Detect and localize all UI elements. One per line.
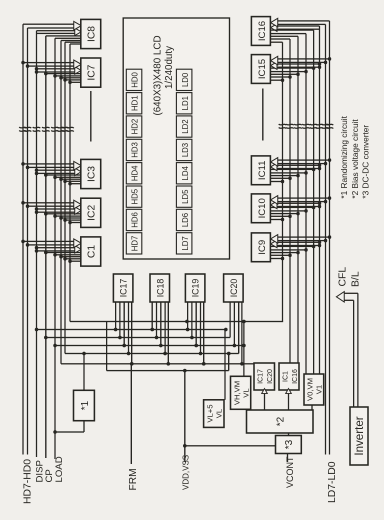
svg-text:IC8: IC8 bbox=[87, 26, 98, 42]
wire *3 supply branch bbox=[185, 445, 276, 447]
wire LOAD branch bbox=[53, 344, 246, 348]
box VH,VM/VL bbox=[231, 376, 251, 409]
wire rail link bbox=[227, 352, 231, 371]
randomizing circuit *1 bbox=[74, 390, 95, 420]
svg-text:HD1: HD1 bbox=[131, 95, 140, 111]
svg-text:VL: VL bbox=[242, 388, 251, 398]
wire *1 right lead bbox=[82, 352, 86, 391]
svg-text:CFL: CFL bbox=[337, 267, 348, 287]
net LOAD label bbox=[54, 456, 65, 482]
wire FRM line bbox=[130, 364, 132, 464]
net FRM label bbox=[128, 468, 139, 490]
svg-text:IC15: IC15 bbox=[257, 59, 268, 79]
box IC17-IC20 bbox=[254, 363, 275, 390]
wire bottom bus line 6 bbox=[277, 26, 320, 374]
column driver IC3 bbox=[81, 159, 101, 188]
svg-text:IC17: IC17 bbox=[119, 279, 129, 298]
wires/arrows into IC7 bbox=[21, 60, 81, 84]
net LD7-LD0 label bbox=[327, 461, 338, 503]
wire LOAD line bbox=[55, 38, 81, 459]
svg-text:LD7-LD0: LD7-LD0 bbox=[327, 461, 338, 503]
svg-text:HD5: HD5 bbox=[131, 188, 140, 204]
wire bottom bus line 4 bbox=[270, 34, 306, 374]
svg-text:IC17: IC17 bbox=[258, 369, 265, 384]
wires/arrows into IC11 bbox=[270, 158, 331, 184]
svg-text:IC20: IC20 bbox=[229, 279, 239, 298]
column driver IC2 bbox=[81, 198, 101, 227]
svg-text:*2 Bias voltage circuit: *2 Bias voltage circuit bbox=[350, 119, 360, 199]
svg-text:HD0: HD0 bbox=[131, 71, 140, 87]
wire bus line 8 (VDD jog) bbox=[70, 44, 283, 371]
svg-text:*3: *3 bbox=[284, 439, 295, 449]
wires/arrows into IC8 bbox=[37, 21, 82, 35]
note *3 bbox=[361, 125, 371, 199]
row driver IC11 bbox=[251, 156, 270, 185]
svg-text:LD7: LD7 bbox=[181, 236, 190, 250]
pin stubs of IC18 bbox=[150, 302, 170, 366]
svg-text:LD3: LD3 bbox=[181, 143, 190, 157]
wires/arrows into IC10 bbox=[270, 196, 331, 222]
svg-text:VH,VM: VH,VM bbox=[233, 381, 242, 405]
shift register IC19 bbox=[185, 274, 205, 302]
svg-text:LD2: LD2 bbox=[181, 119, 190, 133]
svg-text:IC16: IC16 bbox=[292, 369, 299, 384]
wire VCONT line bbox=[287, 454, 289, 463]
DC-DC converter *3 bbox=[276, 436, 302, 454]
svg-text:1/240duty: 1/240duty bbox=[164, 46, 175, 89]
wire CP branch bbox=[44, 302, 230, 339]
wires/arrows into IC16 bbox=[271, 18, 320, 31]
svg-text:CP: CP bbox=[44, 469, 55, 482]
svg-text:B/L: B/L bbox=[350, 271, 361, 287]
wire bottom bus line 2 bbox=[270, 39, 290, 363]
column driver IC7 bbox=[81, 58, 101, 87]
wire *3 to *2 link bbox=[288, 433, 290, 436]
wires/arrows into IC9 bbox=[270, 235, 331, 261]
svg-text:IC19: IC19 bbox=[191, 279, 201, 298]
net B/L label bbox=[350, 271, 361, 287]
svg-text:FRM: FRM bbox=[128, 468, 139, 490]
svg-text:IC7: IC7 bbox=[87, 64, 98, 80]
wire LD7-LD0 bus pair bbox=[278, 21, 330, 455]
continuation dash between IC3 and IC7 bbox=[90, 91, 92, 142]
LCD pads LD7..LD0 bbox=[176, 69, 192, 254]
backlight arrow bbox=[336, 292, 344, 302]
svg-text:HD2: HD2 bbox=[131, 119, 140, 135]
row driver IC15 bbox=[251, 55, 270, 84]
note *1 bbox=[339, 115, 349, 198]
wire *2 arrow to IC1-IC16 box bbox=[286, 389, 292, 411]
wire DISP branch to VL box bbox=[35, 328, 225, 400]
wire DISP line bbox=[37, 31, 75, 457]
wires/arrows into C1 bbox=[21, 239, 81, 263]
wires/arrows into IC2 bbox=[21, 200, 81, 224]
svg-text:LD4: LD4 bbox=[181, 165, 190, 180]
wire bottom bus line 5 bbox=[270, 30, 313, 374]
svg-text:*2: *2 bbox=[276, 416, 287, 426]
svg-text:IC16: IC16 bbox=[257, 21, 268, 41]
svg-text:VL: VL bbox=[215, 408, 224, 418]
note *2 bbox=[350, 119, 360, 199]
break marks on top bus bbox=[19, 127, 74, 131]
wire *2 arrow to IC17-IC20 box bbox=[262, 389, 268, 411]
wire bus line 6 bbox=[61, 41, 81, 364]
svg-text:LOAD: LOAD bbox=[54, 456, 65, 482]
svg-text:HD7: HD7 bbox=[131, 236, 140, 252]
inverter box bbox=[350, 407, 368, 465]
net VCONT label bbox=[285, 456, 295, 488]
wire VDD,VSS line bbox=[183, 369, 187, 462]
svg-text:IC9: IC9 bbox=[257, 240, 268, 255]
svg-text:IC1: IC1 bbox=[283, 371, 290, 382]
svg-text:VL+5: VL+5 bbox=[205, 405, 214, 423]
net VDD,VSS label bbox=[181, 455, 190, 490]
pin stubs of IC17 bbox=[114, 302, 134, 366]
box VL+5/VL bbox=[204, 400, 224, 428]
svg-text:IC18: IC18 bbox=[155, 279, 165, 298]
svg-text:C1: C1 bbox=[87, 245, 98, 258]
svg-text:V0,VM: V0,VM bbox=[306, 378, 315, 401]
wire VDD rail bbox=[107, 370, 229, 372]
shift register IC20 bbox=[224, 274, 244, 302]
svg-text:IC2: IC2 bbox=[87, 205, 98, 221]
wire backlight pipe bbox=[344, 293, 358, 407]
row driver IC16 bbox=[251, 17, 270, 46]
svg-text:V1: V1 bbox=[315, 385, 324, 394]
wire bus7 branch bbox=[65, 302, 239, 354]
shift register IC18 bbox=[150, 274, 170, 302]
wires/arrows into IC3 bbox=[21, 161, 81, 185]
net CP label bbox=[44, 469, 55, 482]
svg-text:IC20: IC20 bbox=[267, 369, 274, 384]
wire HD7-HD0 bus line 2 bbox=[28, 28, 74, 455]
svg-text:HD3: HD3 bbox=[131, 142, 140, 158]
svg-text:HD7-HD0: HD7-HD0 bbox=[22, 459, 33, 504]
column driver C1 bbox=[81, 237, 101, 266]
net DISP label bbox=[35, 460, 46, 482]
LCD panel box bbox=[123, 18, 229, 259]
wire bus6 branch bbox=[61, 363, 254, 365]
svg-text:*1: *1 bbox=[80, 400, 91, 410]
svg-text:HD4: HD4 bbox=[131, 165, 140, 181]
svg-text:HD6: HD6 bbox=[131, 212, 140, 228]
bias voltage circuit *2 bbox=[247, 410, 314, 433]
net CFL label bbox=[337, 267, 348, 287]
svg-text:VDD,VSS: VDD,VSS bbox=[181, 455, 190, 490]
break marks on bottom bus bbox=[279, 124, 334, 128]
wire bus line 7 bbox=[65, 42, 81, 353]
row driver IC10 bbox=[251, 194, 270, 223]
LCD pads HD7..HD0 bbox=[126, 69, 142, 254]
column driver IC8 bbox=[81, 19, 101, 48]
box IC1-IC16 bbox=[279, 363, 299, 390]
svg-text:LD0: LD0 bbox=[181, 72, 190, 87]
wire HD7-HD0 bus line 1 (to IC8 arrow) bbox=[23, 24, 74, 454]
shift register IC17 bbox=[113, 274, 132, 302]
LCD title text bbox=[152, 35, 175, 115]
wires/arrows into IC15 bbox=[270, 56, 331, 82]
svg-text:LD6: LD6 bbox=[181, 213, 190, 227]
continuation dash between IC11 and IC15 bbox=[262, 89, 264, 141]
svg-text:*3 DC-DC converter: *3 DC-DC converter bbox=[361, 125, 371, 199]
pin stubs of IC19 bbox=[186, 302, 206, 366]
wire bottom bus line 3 bbox=[270, 36, 298, 363]
svg-text:VCONT: VCONT bbox=[285, 456, 295, 488]
svg-text:IC11: IC11 bbox=[257, 161, 268, 181]
svg-text:IC10: IC10 bbox=[257, 198, 268, 218]
wire *2 to V0 box link bbox=[311, 405, 313, 410]
svg-text:LD5: LD5 bbox=[181, 189, 190, 204]
wire bottom bus line 1 (to VH,VM) bbox=[242, 42, 282, 376]
box V0,VM/V1 bbox=[304, 374, 324, 405]
net HD7-HD0 label bbox=[22, 459, 33, 504]
svg-text:*1 Randomizing circuit: *1 Randomizing circuit bbox=[339, 115, 349, 198]
svg-text:Inverter: Inverter bbox=[353, 416, 366, 455]
wire CP line bbox=[46, 36, 81, 458]
svg-text:IC3: IC3 bbox=[87, 166, 98, 182]
svg-text:LD1: LD1 bbox=[181, 96, 190, 110]
row driver IC9 bbox=[251, 233, 270, 262]
pin stubs of IC20 bbox=[224, 302, 244, 366]
svg-text:(640X3)X480 LCD: (640X3)X480 LCD bbox=[152, 35, 163, 115]
wire *1 left lead to LOAD bbox=[53, 421, 84, 434]
